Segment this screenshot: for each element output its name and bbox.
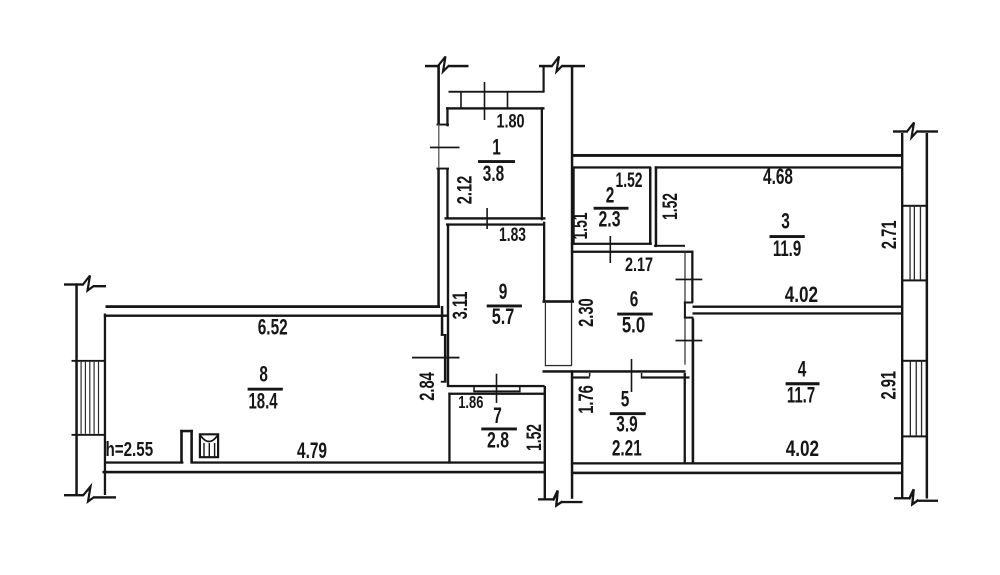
svg-text:6: 6	[630, 288, 639, 312]
svg-text:2.3: 2.3	[598, 208, 620, 232]
svg-text:2.12: 2.12	[453, 176, 476, 205]
svg-text:1.52: 1.52	[616, 168, 643, 192]
svg-text:4.79: 4.79	[297, 439, 327, 463]
svg-text:4: 4	[798, 358, 807, 382]
svg-text:4.68: 4.68	[763, 166, 793, 190]
svg-text:5: 5	[621, 388, 630, 412]
svg-text:1.52: 1.52	[658, 193, 682, 220]
svg-text:11.7: 11.7	[787, 383, 815, 408]
svg-text:1: 1	[492, 136, 501, 160]
svg-text:5.0: 5.0	[622, 313, 645, 338]
svg-text:2: 2	[606, 184, 615, 208]
svg-text:5.7: 5.7	[492, 304, 515, 329]
svg-text:1.83: 1.83	[499, 224, 526, 246]
svg-text:4.02: 4.02	[786, 437, 819, 462]
svg-text:2.30: 2.30	[574, 298, 597, 327]
svg-text:3: 3	[781, 210, 790, 234]
svg-text:2.17: 2.17	[625, 253, 653, 276]
svg-text:6.52: 6.52	[258, 316, 288, 340]
svg-text:1.86: 1.86	[458, 393, 483, 412]
svg-text:7: 7	[493, 404, 502, 428]
svg-text:2.21: 2.21	[612, 437, 642, 461]
svg-text:3.11: 3.11	[448, 292, 471, 320]
svg-text:9: 9	[499, 280, 508, 304]
svg-text:4.02: 4.02	[785, 283, 818, 308]
svg-text:h=2.55: h=2.55	[105, 438, 153, 461]
svg-text:3.9: 3.9	[616, 413, 637, 437]
svg-text:18.4: 18.4	[248, 388, 278, 413]
svg-text:2.91: 2.91	[877, 371, 900, 400]
svg-text:11.9: 11.9	[773, 236, 801, 261]
svg-text:2.71: 2.71	[878, 221, 901, 250]
svg-text:2.8: 2.8	[487, 429, 509, 453]
svg-text:1.80: 1.80	[496, 109, 524, 132]
svg-text:2.84: 2.84	[416, 372, 439, 401]
svg-text:8: 8	[259, 363, 268, 388]
svg-text:1.52: 1.52	[522, 424, 546, 451]
svg-text:1.51: 1.51	[568, 212, 592, 239]
svg-text:1.76: 1.76	[574, 385, 597, 414]
svg-text:3.8: 3.8	[483, 162, 504, 186]
